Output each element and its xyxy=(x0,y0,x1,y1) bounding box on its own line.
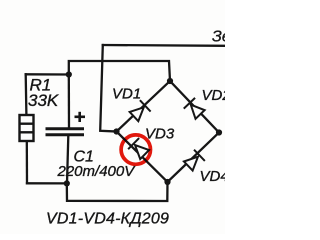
svg-text:VD4: VD4 xyxy=(200,168,226,185)
wire: capacitor C1 top lead xyxy=(68,75,70,128)
diode VD4 xyxy=(183,150,205,172)
capacitor C1 polarity plus xyxy=(75,112,86,122)
diode VD1 xyxy=(129,100,151,122)
wire: second horizontal to bridge top vertex xyxy=(69,61,170,81)
svg-text:33K: 33K xyxy=(28,91,59,110)
resistor R1 body xyxy=(20,115,34,141)
svg-text:Зе: Зе xyxy=(212,29,225,46)
node: junction R1/C1 top xyxy=(66,71,72,77)
wire: R1 top vertical lead xyxy=(25,74,28,115)
wire: bridge edge left vertex to top vertex (VD1 branch) xyxy=(117,81,171,132)
wire: left vertical from top wire down to left vertex jog xyxy=(100,45,116,132)
wire: bridge edge bottom vertex to right vertex (VD4 branch) xyxy=(168,133,220,183)
wire: R1 bottom lead xyxy=(26,141,29,183)
wire: top AC (green) line xyxy=(103,44,225,47)
node: junction C1 bottom xyxy=(64,180,70,186)
wire: staple from C1 node down-right-up to bridge bottom vertex xyxy=(67,182,168,201)
node: bridge left vertex xyxy=(113,128,119,134)
diode VD2 xyxy=(184,98,206,120)
wire: bridge edge left vertex to bottom vertex (VD3 branch) xyxy=(117,132,168,183)
node: bridge right vertex xyxy=(216,129,222,135)
svg-text:220m/400V: 220m/400V xyxy=(57,163,137,180)
svg-text:VD1-VD4-КД209: VD1-VD4-КД209 xyxy=(46,211,169,228)
wire: capacitor C1 bottom lead xyxy=(67,136,68,183)
svg-text:VD1: VD1 xyxy=(112,86,141,103)
node: bridge top vertex xyxy=(167,78,173,84)
wire: bottom horizontal from R1 to C1 node xyxy=(27,182,67,184)
svg-text:VD2: VD2 xyxy=(202,87,226,104)
diode VD3 (highlighted) xyxy=(128,138,150,160)
wire: bridge edge top vertex to right vertex (VD2 branch) xyxy=(170,81,219,133)
wire: R1 top lead horizontal xyxy=(26,73,69,75)
node: bridge bottom vertex xyxy=(164,179,170,185)
capacitor C1 plates xyxy=(46,129,85,135)
highlight circle around VD3 xyxy=(121,135,150,164)
svg-text:VD3: VD3 xyxy=(145,126,175,143)
